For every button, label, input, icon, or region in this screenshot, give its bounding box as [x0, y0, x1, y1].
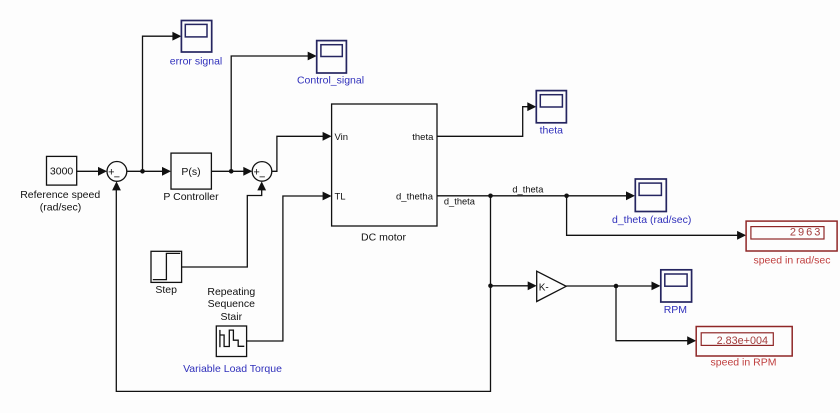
wire to gain [491, 281, 537, 290]
svg-text:error signal: error signal [170, 56, 223, 68]
wire Step to sum2 bottom [182, 181, 267, 267]
scope RPM [661, 270, 692, 302]
svg-text:theta: theta [412, 132, 434, 143]
svg-text:−: − [259, 171, 265, 183]
svg-text:d_thetha: d_thetha [396, 192, 434, 203]
wire to display speed in RPM [616, 286, 696, 345]
wire sum1 to P(s) [127, 167, 171, 176]
svg-text:Vin: Vin [335, 132, 349, 143]
svg-text:Reference speed: Reference speed [20, 189, 100, 201]
scope Control_signal [317, 41, 347, 73]
svg-text:2.83e+004: 2.83e+004 [717, 335, 768, 347]
wire gain to RPM scope [566, 282, 660, 291]
wire sum2 to Vin [272, 132, 332, 171]
svg-text:d_theta: d_theta [444, 197, 476, 207]
block Repeating Sequence Stair [216, 326, 246, 357]
svg-text:Variable Load Torque: Variable Load Torque [183, 363, 282, 375]
wire P(s) to sum2 [211, 167, 252, 176]
scope error signal [181, 21, 211, 53]
svg-text:Sequence: Sequence [208, 298, 255, 310]
wire feedback d_theta to sum1 (and down to gain) [112, 181, 493, 391]
svg-text:K-: K- [539, 283, 549, 294]
wire 3000 to sum1 [77, 167, 107, 176]
block Step [151, 251, 182, 282]
scope d_theta (rad/sec) [635, 179, 666, 212]
sum junction 1 [107, 162, 127, 184]
svg-text:Stair: Stair [221, 311, 243, 323]
wire Repeating Sequence Stair to TL [247, 192, 332, 341]
wire to Control_signal scope [231, 52, 317, 172]
svg-text:(rad/sec): (rad/sec) [40, 202, 81, 214]
svg-text:d_theta (rad/sec): d_theta (rad/sec) [612, 214, 691, 226]
svg-text:RPM: RPM [664, 304, 687, 316]
svg-text:TL: TL [335, 192, 346, 203]
svg-text:2963: 2963 [790, 226, 822, 238]
svg-text:P(s): P(s) [181, 166, 200, 178]
svg-text:DC motor: DC motor [361, 231, 406, 243]
scope theta [536, 91, 566, 123]
wire theta to scope [437, 102, 536, 136]
svg-text:speed in RPM: speed in RPM [711, 357, 777, 369]
svg-text:3000: 3000 [50, 166, 74, 178]
wire to display speed in rad/sec [567, 196, 747, 240]
svg-text:Repeating: Repeating [207, 286, 255, 298]
svg-text:Control_signal: Control_signal [297, 75, 364, 87]
display speed in RPM (2.83e+004) [696, 327, 792, 357]
svg-text:P Controller: P Controller [163, 191, 219, 203]
block P Controller [171, 153, 211, 189]
svg-text:−: − [114, 171, 120, 183]
wire to error signal scope [143, 32, 182, 172]
svg-text:Step: Step [155, 284, 177, 296]
wire d_thetha main line [437, 191, 635, 200]
display speed in rad/sec (2963) [746, 221, 837, 251]
svg-text:speed in rad/sec: speed in rad/sec [753, 255, 830, 267]
gain K- [537, 271, 567, 301]
svg-text:d_theta: d_theta [512, 184, 544, 194]
svg-text:theta: theta [540, 125, 564, 137]
constant block 3000 (Reference speed) [47, 156, 77, 185]
sum junction 2 [252, 162, 272, 184]
block DC motor [332, 104, 437, 226]
